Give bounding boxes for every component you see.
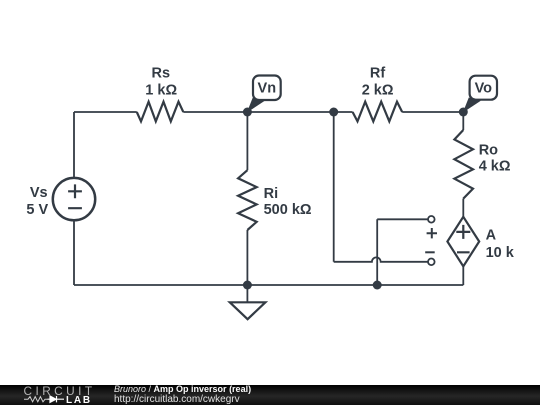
svg-text:A: A: [486, 227, 497, 243]
svg-text:4 kΩ: 4 kΩ: [479, 159, 511, 175]
wire top rail left (Vs to Rs): [74, 111, 137, 113]
wire minus input horizontal with hop: [334, 257, 428, 261]
wire Ro to A top: [462, 199, 464, 217]
footer bar: [0, 385, 540, 405]
resistor Rs: [137, 102, 184, 122]
resistor Ri: [238, 170, 257, 230]
minus mark control input: [425, 251, 435, 253]
plus mark control input: [427, 228, 437, 238]
svg-text:5 V: 5 V: [26, 202, 48, 218]
junction Vo node dot: [459, 108, 468, 117]
wire bottom rail: [74, 284, 463, 286]
junction ground node dot: [243, 281, 252, 290]
terminal plus input (open circle): [428, 216, 435, 223]
junction Vn node dot: [243, 108, 252, 117]
junction plus-input ground dot: [373, 281, 382, 290]
dependent source A (diamond): [447, 217, 479, 266]
node Vo flag: [463, 76, 497, 113]
wire Ri top (Vn node to Ri): [246, 112, 248, 170]
wire top rail right (Rf to Vo): [402, 111, 463, 113]
svg-text:Vo: Vo: [475, 81, 493, 97]
wire Ri bottom (Ri to bottom rail): [246, 230, 248, 285]
svg-text:Rs: Rs: [152, 66, 171, 82]
wire plus input vertical (ground rail up): [376, 219, 378, 285]
svg-text:1 kΩ: 1 kΩ: [145, 82, 177, 98]
wire left rail upper (corner to Vs top): [73, 112, 75, 178]
node Vn flag: [247, 76, 281, 113]
svg-text:10 k: 10 k: [486, 245, 515, 261]
terminal minus input (open circle): [428, 259, 435, 266]
svg-text:Ri: Ri: [264, 186, 279, 202]
wire plus input horizontal: [377, 218, 428, 220]
voltage source Vs: [53, 178, 95, 220]
wire feedback vertical (junction to minus input): [333, 112, 335, 262]
wire left rail lower (Vs bottom to bottom rail): [73, 220, 75, 285]
svg-text:Rf: Rf: [370, 66, 385, 82]
resistor Rf: [353, 102, 403, 122]
svg-text:500 kΩ: 500 kΩ: [264, 202, 312, 218]
junction feedback node dot: [329, 108, 338, 117]
wire top rail mid (Rs to Rf through Vn): [183, 111, 352, 113]
svg-text:Ro: Ro: [479, 142, 498, 158]
ground: [230, 285, 266, 319]
svg-text:Vn: Vn: [258, 81, 277, 97]
resistor Ro: [454, 130, 473, 199]
svg-text:Vs: Vs: [30, 185, 48, 201]
wire A bottom to bottom rail: [462, 266, 464, 285]
svg-text:2 kΩ: 2 kΩ: [362, 82, 394, 98]
caption text: [114, 385, 251, 404]
wire Vo to Ro: [462, 112, 464, 130]
